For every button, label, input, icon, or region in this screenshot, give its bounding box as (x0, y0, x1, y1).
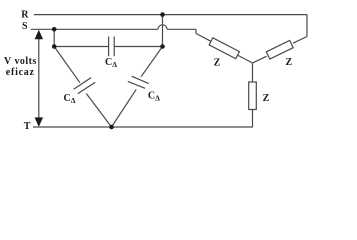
svg-text:Z: Z (214, 58, 221, 69)
wire right branch diagonal (upper) (293, 37, 307, 44)
wire S to delta top-left vertex (53, 29, 55, 46)
wire S line (with hop over vertical) (31, 28, 158, 30)
wire R line (34, 14, 307, 16)
impedance Z bottom branch box (249, 82, 257, 110)
capacitor C-delta top plates (108, 37, 110, 57)
svg-text:V volts: V volts (4, 56, 37, 67)
wire T line (33, 126, 253, 128)
wire right-side drop from R (306, 15, 308, 37)
junction dot delta bottom vertex on T line (109, 125, 114, 130)
svg-text:eficaz: eficaz (6, 67, 35, 78)
junction dot on R line (160, 12, 165, 17)
wire delta top side (right of capacitor) (114, 46, 162, 48)
hop over crossing wire (158, 25, 167, 30)
junction dot delta top-left vertex (52, 44, 57, 49)
wire delta right side (upper) (141, 47, 163, 77)
wire left branch diagonal (lower) (238, 55, 253, 63)
wire delta right side (lower) (112, 89, 137, 127)
wire bottom box to T line (251, 110, 253, 127)
svg-text:CΔ: CΔ (64, 93, 76, 105)
wire left branch diagonal (upper) (196, 34, 211, 42)
impedance Z right branch box (266, 40, 293, 59)
svg-text:Z: Z (263, 93, 270, 104)
junction dot on S line (52, 27, 57, 32)
svg-text:T: T (24, 121, 31, 132)
wire right branch diagonal (lower) (253, 56, 267, 63)
svg-text:R: R (21, 9, 29, 20)
impedance Z left branch box (209, 38, 239, 59)
wire delta left side (upper) (54, 47, 80, 83)
wire star point to bottom box (252, 63, 254, 82)
wire R to delta top-right vertex (crosses S) (162, 15, 164, 47)
wire delta top side (left of capacitor) (54, 46, 108, 48)
capacitor C-delta right plates (132, 76, 149, 83)
capacitor C-delta left plates (74, 78, 92, 90)
measurement arrow V (double-headed, S to T) (35, 30, 43, 127)
junction dot delta top-right vertex (160, 44, 165, 49)
wire delta left side (lower) (86, 94, 111, 128)
svg-text:CΔ: CΔ (148, 91, 160, 103)
svg-text:Z: Z (286, 57, 293, 68)
svg-text:S: S (22, 21, 28, 32)
wire S corner drop (195, 29, 197, 33)
svg-text:CΔ: CΔ (105, 57, 117, 69)
